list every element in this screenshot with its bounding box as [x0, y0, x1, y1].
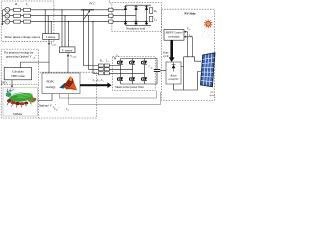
phase c wire: [10, 21, 109, 23]
wire drop phase b to APF: [89, 16, 99, 70]
gate signal thick arrow: [80, 84, 108, 86]
V sensor taps: [62, 10, 68, 47]
filter resistor Rc-c: [98, 72, 103, 75]
IGBT S5: [141, 61, 147, 65]
wire Cdc to boost: [160, 70, 166, 72]
svg-text:PV Side: PV Side: [184, 12, 196, 16]
Ipv sense wire: [185, 37, 193, 57]
duty cycle thick arrow: [170, 40, 173, 58]
bridge buses: [126, 5, 152, 25]
SOMA creature (mantis shrimp): [6, 88, 37, 107]
svg-text:pv: pv: [188, 29, 191, 31]
inductor Ls-a: [24, 8, 31, 11]
strategy dashed enclosure B (SOMA): [1, 85, 38, 119]
diode D1: [124, 7, 127, 10]
boost to PV wires: [174, 57, 202, 90]
svg-text:Shunt active power filter: Shunt active power filter: [115, 85, 144, 89]
inductor Ls-c: [24, 20, 31, 23]
feedback wire Vdc: [59, 91, 156, 98]
MATLAB logo: [59, 76, 77, 90]
three-phase source dashed enclosure: [1, 1, 54, 41]
svg-text:THD value: THD value: [11, 74, 25, 78]
boost converter box: [166, 62, 181, 84]
sun rays: [201, 30, 211, 40]
diode D6: [134, 21, 137, 24]
shunt APF dashed enclosure: [113, 57, 156, 91]
IGBT S1: [117, 61, 123, 65]
diode D3: [134, 7, 137, 10]
V sensor box: [60, 47, 76, 53]
IGBT S6: [129, 77, 135, 81]
svg-text:cycle: cycle: [163, 55, 170, 58]
diode D5: [145, 7, 148, 10]
svg-text:Nonlinear load: Nonlinear load: [126, 27, 145, 31]
load inductor Lb: [109, 14, 114, 17]
wire SOMA to PDPC: [38, 94, 53, 101]
svg-text:dc: dc: [151, 67, 153, 69]
inverter buses: [121, 59, 158, 85]
source Vb: [5, 13, 10, 18]
Vpv sense wire: [185, 32, 188, 57]
PV array panel: [201, 53, 215, 87]
svg-text:THD: THD: [1, 81, 7, 84]
injection current arrows: [114, 57, 116, 60]
ground arrow: [2, 23, 4, 25]
resistor Rs-a: [14, 8, 21, 11]
I sensor box: [43, 34, 60, 40]
strategy dashed enclosure C (PDPC): [38, 72, 96, 118]
svg-text:I sensor: I sensor: [46, 35, 55, 39]
wire Vs to PDPC: [67, 58, 69, 73]
wire Is to THD calc and PDPC: [21, 46, 50, 73]
Is,abc arrow: [48, 39, 50, 44]
svg-text:PDPC: PDPC: [47, 80, 55, 84]
bridge wires: [113, 10, 147, 22]
IGBT S2: [141, 77, 147, 81]
MPPT control box: [164, 30, 184, 41]
diode D4: [124, 21, 127, 24]
load inductor LL: [149, 16, 153, 22]
diode D2: [145, 21, 148, 24]
IGBT S4: [117, 77, 123, 81]
junction dots: [83, 9, 84, 10]
IGBT S3: [129, 61, 135, 65]
svg-text:converter: converter: [169, 78, 180, 81]
svg-text:generating Optimal V: generating Optimal V: [6, 55, 32, 59]
neutral wire: [3, 10, 5, 23]
filter inductor Lc-c: [104, 72, 109, 75]
source Va: [5, 7, 10, 12]
filter resistor Rc-a: [98, 64, 103, 67]
I sensor taps: [45, 10, 51, 34]
svg-text:ca: ca: [67, 109, 69, 111]
svg-text:Optimal V: Optimal V: [39, 104, 53, 108]
filter resistor Rc-b: [98, 68, 103, 71]
wire drop phase c to APF: [93, 22, 98, 74]
svg-text:pv: pv: [190, 36, 193, 38]
svg-text:Duty: Duty: [162, 52, 169, 55]
strategy dashed enclosure A (title + THD): [1, 49, 38, 84]
filter inductor Lc-b: [104, 68, 109, 71]
svg-text:s: s: [28, 5, 29, 7]
nonlinear load dashed enclosure: [112, 2, 161, 31]
svg-text:PCC: PCC: [88, 1, 96, 5]
boost diode: [172, 63, 176, 72]
svg-text:s,abc: s,abc: [72, 57, 76, 59]
svg-text:Array: Array: [208, 94, 216, 97]
load inductor La: [109, 8, 114, 11]
svg-text:V sensor: V sensor: [62, 48, 73, 52]
svg-text:s: s: [18, 5, 19, 7]
filter inductor Lc-a: [104, 64, 109, 67]
PDPC strategy box: [42, 73, 80, 94]
phase b wire: [10, 15, 109, 17]
svg-text:Three phase voltage source: Three phase voltage source: [4, 35, 41, 39]
inductor Ls-b: [24, 14, 31, 17]
source Vc: [5, 19, 10, 24]
SOMA picture frame: [3, 88, 38, 117]
svg-text:SOMA: SOMA: [13, 112, 23, 116]
svg-text:*: *: [58, 108, 59, 110]
svg-text:s,abc: s,abc: [52, 44, 56, 46]
svg-text:technique: technique: [168, 34, 180, 38]
capacitor Cdc: [156, 59, 158, 85]
wires filter to legs: [109, 66, 144, 74]
svg-text:strategy: strategy: [45, 85, 55, 89]
THD wire to SOMA: [11, 80, 13, 86]
resistor Rs-c: [14, 20, 21, 23]
Vs,abc arrow: [67, 53, 69, 57]
resistor Rs-b: [14, 14, 21, 17]
PV side dashed enclosure: [161, 9, 214, 100]
wire drop phase a to APF: [84, 10, 99, 66]
load resistor RL: [149, 8, 153, 14]
sun: [204, 20, 212, 29]
phase a wire: [10, 9, 109, 11]
THD calculate box: [4, 68, 31, 80]
feedback wire Ica: [69, 92, 161, 105]
load inductor Lc: [109, 20, 114, 23]
